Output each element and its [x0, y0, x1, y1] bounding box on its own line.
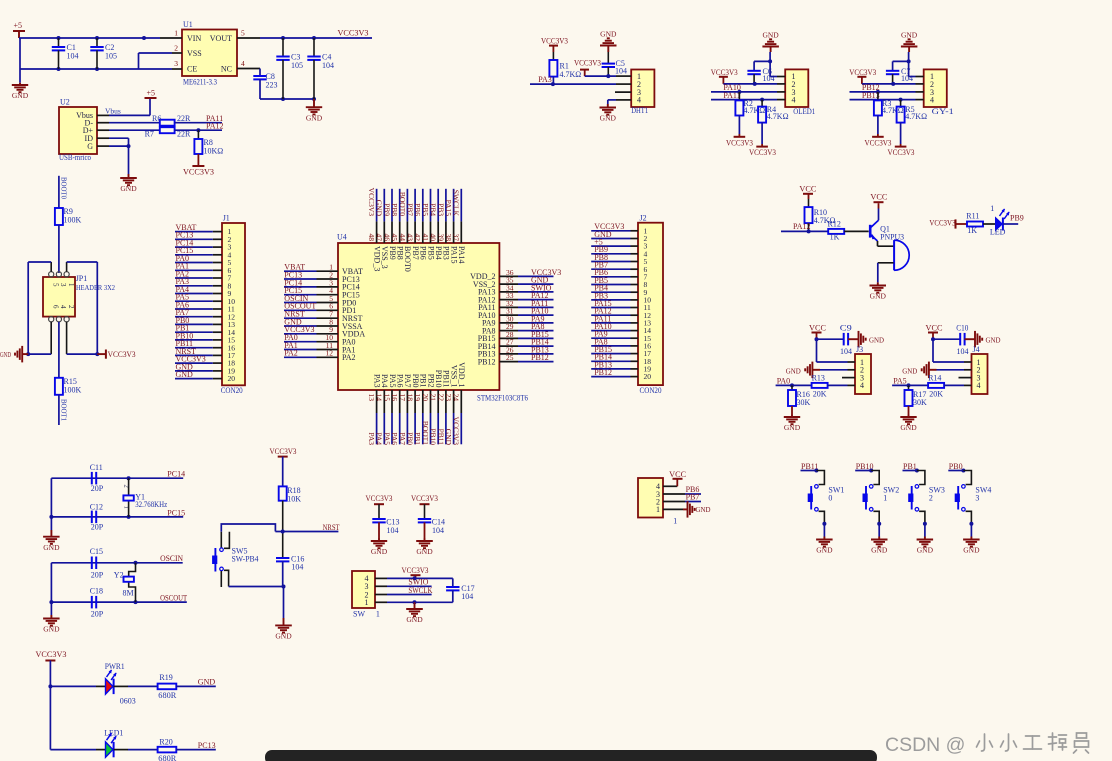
svg-text:VCC3V3: VCC3V3: [402, 566, 429, 575]
pin 3 J1: [213, 246, 222, 248]
wire R11 to LED: [983, 223, 996, 225]
svg-text:1: 1: [673, 517, 677, 526]
svg-text:PB7: PB7: [411, 246, 420, 260]
svg-text:100K: 100K: [64, 385, 82, 394]
svg-text:VCC: VCC: [926, 323, 943, 332]
svg-text:46: 46: [382, 234, 391, 242]
svg-text:SW-PB4: SW-PB4: [232, 554, 259, 563]
svg-text:PA15: PA15: [444, 200, 453, 217]
net PA3: [176, 277, 190, 286]
svg-text:OSCIN: OSCIN: [160, 554, 183, 563]
net PB0: [949, 462, 963, 471]
wire: [591, 337, 630, 339]
wire PA3 row: [530, 83, 616, 85]
pin 4: [848, 384, 856, 386]
pin 1 J2: [631, 230, 639, 232]
svg-text:22R: 22R: [177, 114, 191, 123]
svg-text:PB3: PB3: [436, 203, 445, 216]
net SWIO: [531, 283, 552, 292]
wire: [518, 299, 554, 301]
wire: [399, 189, 401, 222]
capacitor C15 20P: [90, 547, 104, 579]
net PB12: [531, 353, 549, 362]
wire pin2 VCC row: [723, 82, 777, 86]
svg-text:48: 48: [367, 234, 376, 242]
svg-text:PA3: PA3: [367, 432, 376, 445]
wire: [591, 368, 630, 370]
pin 38 U4: [444, 221, 458, 263]
pin 1: [964, 361, 972, 363]
net PB11: [176, 339, 194, 348]
svg-text:4: 4: [930, 96, 934, 105]
net OSCOUT: [284, 302, 316, 311]
svg-text:104: 104: [387, 526, 399, 535]
wire PB6: [685, 493, 701, 495]
wire VSS branch: [139, 53, 173, 69]
net PA6: [176, 300, 190, 309]
svg-text:GND: GND: [416, 547, 433, 556]
svg-text:DHT1: DHT1: [631, 106, 648, 115]
wire ID-G join: [109, 138, 129, 146]
svg-text:20P: 20P: [91, 523, 104, 532]
wire JP1 to R15: [58, 322, 60, 378]
svg-text:J3: J3: [856, 345, 863, 354]
pin 18 J1: [213, 362, 222, 364]
svg-text:20: 20: [644, 372, 652, 381]
wire: [591, 353, 630, 355]
net PA15: [444, 200, 453, 217]
net PA11: [723, 91, 740, 100]
svg-text:VCC3V3: VCC3V3: [749, 148, 776, 157]
wire: [284, 286, 317, 288]
svg-text:GND: GND: [901, 31, 918, 40]
pin 33 U4: [478, 291, 518, 304]
power VCC3V3 side: [929, 219, 967, 229]
svg-text:CSDN @: CSDN @: [885, 734, 965, 756]
svg-text:PB12: PB12: [531, 353, 549, 362]
net PC14: [167, 470, 185, 479]
svg-text:PB8: PB8: [390, 203, 399, 216]
pin 46 U4: [382, 221, 396, 259]
net PB10: [429, 428, 438, 445]
wire base row: [781, 230, 828, 232]
wire: [453, 413, 455, 444]
wire: [591, 261, 630, 263]
svg-text:PA5: PA5: [382, 432, 391, 445]
svg-text:R11: R11: [966, 211, 979, 220]
resistor R10 4.7K: [805, 207, 836, 225]
net PA6: [390, 432, 399, 445]
svg-text:PWR1: PWR1: [105, 662, 125, 671]
svg-text:PA6: PA6: [396, 374, 405, 388]
wire: [518, 337, 554, 339]
svg-text:680R: 680R: [158, 754, 177, 761]
svg-text:38: 38: [444, 234, 453, 242]
pin 5 U4: [317, 294, 357, 307]
wire: [518, 345, 554, 347]
svg-text:30K: 30K: [797, 398, 811, 407]
pin 16 J1: [213, 347, 222, 349]
wire: [175, 231, 213, 233]
pin 14 J1: [213, 331, 222, 333]
net PA10: [594, 322, 612, 331]
net BOOT1: [421, 421, 430, 445]
pin 18 J2: [631, 360, 639, 362]
net PB9: [594, 245, 608, 254]
pin 5 J2: [631, 261, 639, 263]
wire NRST row: [275, 531, 338, 533]
svg-text:18: 18: [406, 394, 415, 402]
pin 4 SW: [375, 577, 387, 579]
transistor Q1 PNPU3: [870, 220, 904, 241]
svg-text:5: 5: [52, 283, 60, 287]
wire: [430, 413, 432, 444]
pin 2: [848, 369, 856, 371]
svg-text:BOOT1: BOOT1: [60, 399, 69, 421]
svg-text:4.7KΩ: 4.7KΩ: [905, 112, 927, 121]
ground side: [859, 331, 885, 348]
pin 2: [777, 83, 785, 85]
wire PC15 row: [51, 515, 183, 519]
pin 4: [777, 99, 785, 101]
wire pin3 row: [711, 90, 777, 94]
pin 1 DHT1: [616, 75, 631, 77]
wire LED to R19: [114, 685, 158, 687]
led PWR1 red 0603: [105, 662, 136, 706]
net PB13: [862, 91, 880, 100]
wire: [284, 333, 317, 335]
pin 1: [848, 361, 856, 363]
net PA8: [594, 337, 608, 346]
wire G to gnd: [109, 144, 131, 174]
svg-text:20P: 20P: [91, 484, 104, 493]
svg-text:PB9: PB9: [1010, 214, 1024, 223]
wire: [391, 189, 393, 222]
svg-text:10K: 10K: [287, 494, 301, 503]
svg-text:PB11: PB11: [442, 370, 451, 388]
net PA1: [176, 262, 190, 271]
svg-text:CON20: CON20: [221, 386, 243, 395]
svg-text:C15: C15: [90, 547, 103, 556]
pin 19 J2: [631, 368, 639, 370]
svg-text:PB9: PB9: [382, 203, 391, 216]
capacitor C18 20P: [90, 587, 104, 619]
wire R1 to PA3: [551, 77, 555, 87]
wire: [855, 469, 873, 473]
net SWCLK: [408, 586, 432, 595]
power VCC3V3 below: [888, 123, 915, 158]
wire: [437, 413, 439, 444]
svg-text:16: 16: [390, 394, 399, 402]
pin 4 NC: [237, 59, 260, 69]
svg-text:C10: C10: [956, 323, 968, 332]
power VCC3V3: [270, 447, 297, 486]
svg-text:JP1: JP1: [76, 274, 88, 283]
pin 25 U4: [478, 353, 518, 366]
pin 2 J2: [631, 238, 639, 240]
svg-text:4: 4: [860, 381, 864, 390]
ground side: [688, 501, 712, 517]
pin 2 J1: [213, 238, 222, 240]
svg-text:1: 1: [656, 505, 660, 514]
svg-text:VCC3V3: VCC3V3: [183, 168, 214, 177]
svg-text:20K: 20K: [929, 390, 943, 399]
svg-text:SW: SW: [353, 610, 365, 619]
svg-text:GND: GND: [762, 31, 779, 40]
wire vcc node: [931, 337, 960, 362]
capacitor C13 104: [372, 518, 399, 539]
net PC13: [198, 741, 216, 750]
pin ID: [97, 137, 109, 139]
svg-text:GND: GND: [986, 336, 1002, 345]
pin 4 J5: [663, 485, 677, 487]
pin 1 SW: [375, 601, 387, 603]
svg-text:4: 4: [977, 381, 981, 390]
wire C16 branch: [281, 530, 285, 559]
wire: [175, 316, 213, 318]
net GND: [198, 678, 216, 687]
pin 20 U4: [421, 374, 435, 413]
svg-text:CE: CE: [187, 65, 197, 74]
wire: [518, 306, 554, 308]
watermark CSDN: [885, 733, 1089, 756]
svg-text:4.7KΩ: 4.7KΩ: [560, 70, 582, 79]
wire: [591, 291, 630, 293]
pin 3: [777, 91, 785, 93]
pin 2 DHT1: [616, 83, 631, 85]
svg-text:12: 12: [326, 349, 334, 358]
power VCC3V3: [541, 37, 568, 61]
pin 3 SW: [375, 585, 387, 587]
ground top: [901, 31, 918, 62]
wire: [399, 413, 401, 444]
svg-text:VCC3V3: VCC3V3: [711, 68, 738, 77]
ground: [917, 537, 934, 555]
wire: [284, 302, 317, 304]
svg-text:5: 5: [241, 29, 245, 38]
mcu U4 STM32F103C8T6: [337, 233, 528, 403]
svg-text:CON20: CON20: [640, 386, 662, 395]
svg-text:NRST: NRST: [323, 523, 340, 532]
pin 12 J1: [213, 316, 222, 318]
wire: [175, 238, 213, 240]
wire PC14 row: [51, 476, 183, 480]
wire: [591, 284, 630, 286]
wire: [445, 189, 447, 222]
svg-text:23: 23: [444, 394, 453, 402]
pin 11 J1: [213, 308, 222, 310]
capacitor C1: [52, 38, 79, 69]
resistor R12 1K: [828, 220, 845, 242]
wire: [948, 469, 965, 473]
pin 19 U4: [413, 374, 427, 413]
wire left rail Y1: [49, 478, 53, 530]
svg-text:3: 3: [174, 59, 178, 68]
svg-text:C11: C11: [90, 463, 103, 472]
pin 7 J2: [631, 276, 639, 278]
capacitor C17 104: [446, 584, 475, 603]
pin 24 U4: [452, 362, 466, 413]
resistor R6 22R: [152, 114, 191, 126]
pin 7 U4: [317, 310, 363, 323]
net PA0: [284, 333, 298, 342]
ground side: [786, 362, 813, 379]
net VCC3V3: [284, 325, 314, 334]
svg-text:GND: GND: [870, 292, 887, 301]
wire: [175, 378, 213, 380]
power VCC3V3 below: [749, 123, 776, 158]
svg-text:C18: C18: [90, 587, 103, 596]
svg-text:PB10: PB10: [434, 370, 443, 388]
svg-text:PA4: PA4: [380, 374, 389, 388]
video progress bar: [265, 750, 877, 761]
wire: [414, 189, 416, 222]
svg-text:+5: +5: [14, 21, 23, 30]
wire pin3 row: [387, 585, 432, 587]
capacitor C7 104: [886, 67, 913, 84]
svg-text:PA5: PA5: [893, 377, 907, 386]
power VCC: [870, 192, 887, 202]
ground: [306, 99, 323, 122]
pin 10 U4: [317, 333, 356, 346]
svg-text:41: 41: [421, 234, 430, 242]
wire: [175, 347, 213, 349]
svg-text:13: 13: [367, 394, 376, 402]
wire: [175, 370, 213, 372]
svg-text:GND: GND: [600, 114, 617, 123]
wire PWR1 row: [50, 685, 105, 687]
wire reset loop: [221, 524, 275, 532]
svg-text:VCC: VCC: [870, 192, 887, 201]
wire: [175, 262, 213, 264]
capacitor C4: [307, 38, 334, 99]
pin 20 J2: [631, 376, 639, 378]
net PA9: [531, 314, 545, 323]
svg-text:BOOT0: BOOT0: [398, 192, 407, 216]
wire: [591, 230, 630, 232]
wire cap to gnd: [848, 338, 858, 340]
svg-text:PB4: PB4: [429, 203, 438, 216]
svg-text:OSCOUT: OSCOUT: [160, 594, 187, 603]
junction dots VOUT rail: [281, 36, 316, 40]
wire vertical rail: [48, 684, 52, 749]
svg-text:GND: GND: [600, 30, 617, 39]
pin 27 U4: [478, 338, 518, 351]
wire collector to VCC: [878, 203, 880, 220]
svg-text:PB2: PB2: [426, 374, 435, 388]
svg-text:VDD_3: VDD_3: [372, 246, 381, 271]
net BOOT1 vertical: [59, 395, 69, 425]
wire: [284, 356, 317, 358]
pin 12 J2: [631, 314, 639, 316]
svg-text:PB7: PB7: [686, 492, 700, 501]
net PB7: [406, 203, 415, 216]
svg-text:GND: GND: [786, 366, 802, 375]
pin D-: [97, 122, 109, 124]
svg-text:20: 20: [421, 394, 430, 402]
svg-text:PC13: PC13: [198, 741, 216, 750]
ground: [871, 537, 888, 555]
svg-text:GND: GND: [176, 370, 194, 379]
svg-text:VCC: VCC: [799, 185, 816, 194]
wire: [591, 299, 630, 301]
svg-text:GND: GND: [784, 423, 801, 432]
pin 20 J1: [213, 378, 222, 380]
svg-text:1: 1: [376, 610, 380, 619]
pin 48 U4: [367, 221, 381, 271]
svg-text:17: 17: [398, 394, 407, 402]
wire: [591, 330, 630, 332]
pin D+: [97, 129, 109, 131]
svg-text:BOOT0: BOOT0: [403, 246, 412, 272]
junction dots bottom rail: [57, 67, 100, 71]
net PA4: [176, 285, 190, 294]
svg-text:R14: R14: [928, 374, 941, 383]
pin 8 J1: [213, 285, 222, 287]
pin 4: [964, 384, 972, 386]
svg-text:PA6: PA6: [390, 432, 399, 445]
wire: [453, 189, 455, 222]
net PA15: [594, 299, 612, 308]
svg-text:PB6: PB6: [413, 203, 422, 216]
ground: [406, 602, 423, 624]
net PB9: [1010, 214, 1024, 223]
svg-text:39: 39: [436, 234, 445, 242]
svg-text:PA2: PA2: [284, 349, 298, 358]
net PB13: [531, 345, 549, 354]
svg-text:VCC3V3: VCC3V3: [36, 650, 67, 659]
svg-text:VOUT: VOUT: [210, 34, 232, 43]
svg-text:1: 1: [67, 283, 75, 287]
net PB15: [531, 330, 549, 339]
wire: [430, 189, 432, 222]
net PB7: [594, 261, 608, 270]
wire: [175, 277, 213, 279]
pin 4: [916, 99, 924, 101]
pin 18 U4: [406, 374, 420, 413]
net PB10: [856, 462, 874, 471]
wire: [175, 339, 213, 341]
net PA12: [531, 291, 549, 300]
wire: [591, 268, 630, 270]
svg-text:GND: GND: [869, 336, 885, 345]
ground: [43, 530, 60, 552]
net PA12: [793, 222, 811, 231]
svg-text:STM32F103C8T6: STM32F103C8T6: [477, 394, 528, 403]
wire: [518, 330, 554, 332]
svg-text:PA7: PA7: [398, 432, 407, 445]
wire: [460, 189, 462, 222]
pin 9 J1: [213, 293, 222, 295]
svg-text:1: 1: [883, 494, 887, 503]
ground: [416, 538, 433, 556]
wire: [175, 362, 213, 364]
pin 34 U4: [478, 283, 518, 296]
header JP1 HEADER 3X2: [43, 272, 115, 322]
wire DHT pin1: [585, 74, 616, 78]
wire: [591, 345, 630, 347]
svg-text:R20: R20: [159, 737, 172, 746]
wire: [591, 245, 630, 247]
net PA11: [206, 114, 223, 123]
svg-text:GND: GND: [816, 546, 833, 555]
wire R18 to NRST: [282, 501, 284, 532]
wire: [518, 361, 554, 363]
pin 14 J2: [631, 330, 639, 332]
wire LED1 to R20: [114, 749, 158, 751]
pin 3 J5: [663, 493, 685, 495]
pin 11 J2: [631, 307, 639, 309]
